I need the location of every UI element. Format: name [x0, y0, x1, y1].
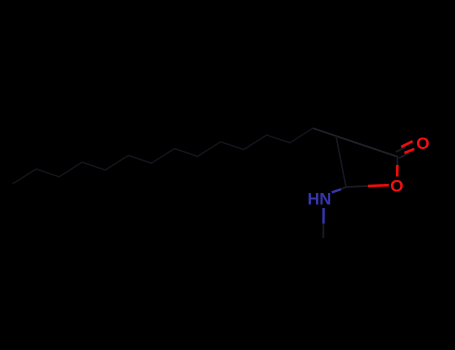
ring bond C4-O1 : oxygen half (red)	[368, 184, 389, 187]
ring bond C4-O1 : carbon half (dark)	[346, 186, 368, 187]
bond N-CH3 : nitrogen half (blue)	[322, 208, 325, 224]
alkyl chain (faint dark zigzag)	[13, 128, 313, 183]
carbonyl double bond C2=O : carbon halves (dark)	[396, 147, 406, 152]
ring bond C2-O1 : carbon half (dark)	[396, 156, 398, 166]
svg-text:HN: HN	[308, 191, 332, 209]
bond chain-C3 and ring bond C3-C2 (collinear dark diagonal)	[313, 128, 397, 156]
carbonyl double bond C2=O : oxygen halves (red dashes)	[401, 141, 412, 147]
svg-text:O: O	[390, 177, 403, 196]
bond N-CH3 : carbon half (dark)	[322, 224, 324, 239]
bond C4-N : carbon half (dark)	[341, 187, 346, 189]
ring bond C2-O1 : oxygen half (red)	[396, 165, 399, 177]
bond C4-N : nitrogen half (blue)	[332, 189, 341, 192]
svg-text:O: O	[416, 134, 429, 153]
ring bond C3-C4 (left side, faint)	[336, 136, 346, 187]
